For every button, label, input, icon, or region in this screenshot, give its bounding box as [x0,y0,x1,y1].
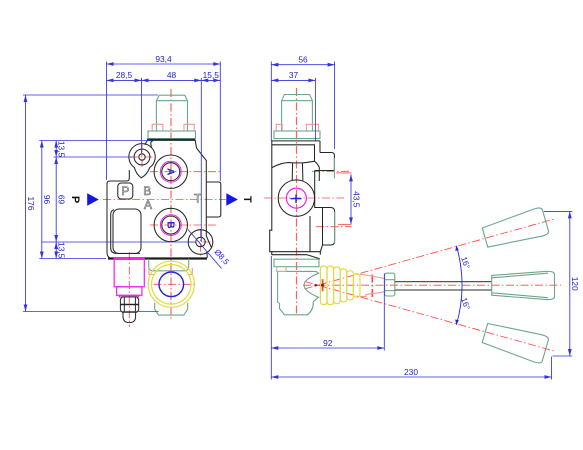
svg-text:P: P [121,184,129,198]
svg-text:13,5: 13,5 [57,141,67,158]
svg-text:T: T [241,196,253,203]
svg-text:P: P [69,196,81,203]
svg-text:13,5: 13,5 [57,242,67,259]
svg-text:43,5: 43,5 [351,191,361,208]
svg-text:T: T [194,192,202,206]
svg-text:B: B [143,184,151,198]
svg-text:A: A [144,198,152,212]
svg-text:37: 37 [289,70,299,80]
svg-text:A: A [165,168,176,175]
svg-text:230: 230 [404,367,418,377]
svg-text:56: 56 [298,55,308,65]
svg-text:15,5: 15,5 [203,70,220,80]
svg-text:96: 96 [42,195,52,205]
svg-text:69: 69 [57,195,67,205]
svg-text:48: 48 [167,70,177,80]
svg-text:B: B [165,221,176,228]
svg-text:93,4: 93,4 [155,54,172,64]
svg-text:28,5: 28,5 [116,70,133,80]
svg-text:92: 92 [323,338,333,348]
svg-text:120: 120 [570,277,580,291]
svg-text:176: 176 [26,197,36,211]
